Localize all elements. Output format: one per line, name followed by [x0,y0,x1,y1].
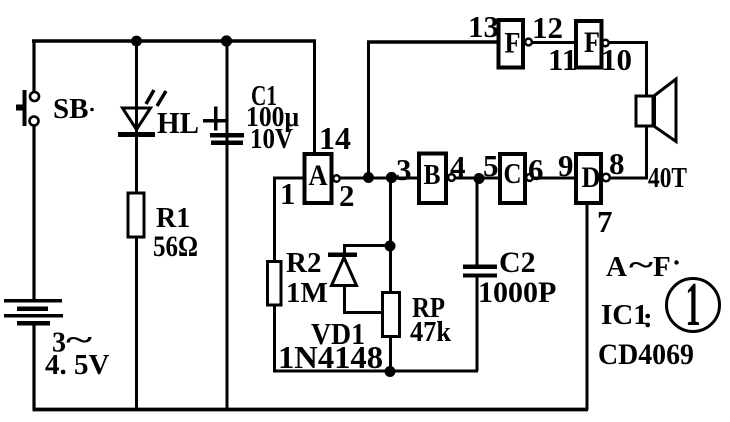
pin label 14 [319,120,351,156]
wire VD1 top link [344,244,391,253]
label 47k [410,316,452,348]
svg-text:7: 7 [597,204,613,239]
svg-text:CD4069: CD4069 [598,338,694,371]
wire F1 to F2 [531,41,577,44]
svg-text:47k: 47k [410,316,452,348]
svg-text:F: F [584,26,600,59]
svg-text:6: 6 [528,152,544,187]
label C1 [251,80,277,112]
label RP [412,293,445,324]
figure number circled 1 [667,271,720,339]
label 1N4148 [278,339,383,375]
label 10V [250,124,293,155]
wire R2 to bottom loop [273,304,276,372]
output bubble gate A pin2 [333,175,339,181]
pin label 11 [548,42,577,77]
label IC1: [601,299,653,334]
pin label 12 [532,10,563,45]
svg-text:13: 13 [468,9,499,44]
wire bottom rail [33,408,589,412]
wire gate D out to speaker [610,177,649,180]
svg-text:3: 3 [396,152,412,187]
svg-text:1: 1 [280,176,296,211]
svg-text:1M: 1M [286,277,328,309]
svg-text:9: 9 [558,148,574,183]
pin label 9 [558,148,574,183]
svg-text:A: A [309,159,328,192]
wire pin7 drop [586,203,589,410]
svg-text:10: 10 [601,42,632,77]
battery GB 3~4.5V [4,299,63,326]
wire HL branch drop [135,41,138,133]
LED HL [118,90,166,137]
wire C2 drop [476,179,479,266]
wire HL to R1 [135,136,138,194]
svg-text:1: 1 [686,271,701,339]
svg-text:R2: R2 [286,247,321,279]
wire RP drop [389,178,392,293]
wire gate C out row [533,177,578,180]
svg-text:2: 2 [339,178,355,213]
wire C1 branch [226,41,229,410]
node dot bottom loop [385,366,396,377]
potentiometer RP [383,293,400,337]
label 1M [286,277,328,309]
pin label 10 [601,42,632,77]
wire SB to battery [32,126,35,301]
svg-text:A: A [606,251,627,283]
pin label 4 [450,149,466,184]
output bubble gate F1 pin12 [525,39,532,46]
pin label 5 [483,148,499,183]
svg-text:D: D [582,161,601,194]
label C2 [499,246,536,279]
node dot row left [363,172,374,183]
label 4.5V [45,349,110,381]
svg-text:HL: HL [157,105,199,140]
inverter U1B box [419,154,446,204]
label HL [157,105,199,140]
svg-text:8: 8 [609,146,625,181]
pin label 1 [280,176,296,211]
pin label 8 [609,146,625,181]
node dot C2 tap [474,173,485,184]
label R1 [156,203,190,234]
svg-text:1000P: 1000P [478,276,556,309]
wire speaker to pin8 row [610,126,647,180]
pin label 6 [528,152,544,187]
svg-text:12: 12 [532,10,563,45]
inverter U1C box [500,154,525,203]
wire R1 to bottom rail [135,236,138,410]
svg-text:1N4148: 1N4148 [278,339,383,375]
wire gate B out row [454,177,501,180]
label A~F [606,249,671,283]
wire gate A out row [339,177,420,180]
wire C2 to bottom loop [476,276,479,371]
pin label 2 [339,178,355,213]
speaker B 40T [636,79,676,142]
output bubble gate D pin8 [602,174,610,182]
label VD1 [311,316,365,351]
svg-text:IC1: IC1 [601,299,648,331]
wire pin14 drop to gate A [313,40,316,156]
wire VD1 anode to RP wiper [343,285,383,313]
label 100µ [246,102,299,133]
svg-text:5: 5 [483,148,499,183]
node dot top rail / C1 branch [221,35,232,46]
wire left rail top (to SB) [32,40,35,93]
output bubble gate C pin6 [526,174,533,181]
pin label 3 [396,152,412,187]
speck above figure number [674,260,678,264]
label 40T [648,163,687,194]
svg-text:C: C [504,159,522,190]
capacitor C1 [203,107,244,146]
svg-text:14: 14 [319,120,351,156]
speck near SB [90,108,94,112]
label 3~ [52,325,93,359]
wire feedback riser [367,41,370,180]
wire pin1 loop down to R2 [273,177,276,263]
svg-text:F: F [653,251,671,283]
node dot VD1 tap [385,241,396,252]
node dot row right [386,172,397,183]
label R2 [286,247,321,279]
diode VD1 [328,253,357,286]
svg-text::: : [643,302,653,334]
svg-text:C2: C2 [499,246,536,279]
svg-text:11: 11 [548,42,577,77]
inverter U1F1 box [499,20,524,68]
resistor R2 [268,262,282,306]
label SB [53,93,88,125]
pin label 13 [468,9,499,44]
inverter U1D box [576,154,601,203]
pin label 7 [597,204,613,239]
label CD4069 [598,338,694,371]
wire bottom loop horizontal [273,370,478,373]
svg-text:~: ~ [629,249,653,281]
resistor R1 [128,193,144,237]
svg-text:10V: 10V [250,124,293,155]
wire battery to bottom rail [32,324,35,410]
wire pin1 loop left [273,177,304,180]
switch SB [16,90,39,126]
capacitor C2 [463,265,497,278]
label 56Ω [153,230,198,263]
svg-text:SB: SB [53,93,88,125]
svg-text:40T: 40T [648,163,687,194]
wire RP to bottom loop [389,336,392,372]
output bubble gate B pin4 [448,174,455,181]
svg-text:4. 5V: 4. 5V [45,349,110,381]
svg-text:56Ω: 56Ω [153,230,198,263]
inverter U1F2 box [576,21,602,68]
wire top-left power rail [32,39,316,43]
output bubble gate F2 pin10 [602,40,608,46]
node dot top rail / HL branch [131,36,142,47]
label 1000P [478,276,556,309]
svg-text:B: B [424,159,441,191]
inverter U1A box [305,154,332,203]
wire top-right rail [367,40,498,43]
svg-text:F: F [505,27,521,60]
wire F2 to speaker corner [609,41,649,97]
